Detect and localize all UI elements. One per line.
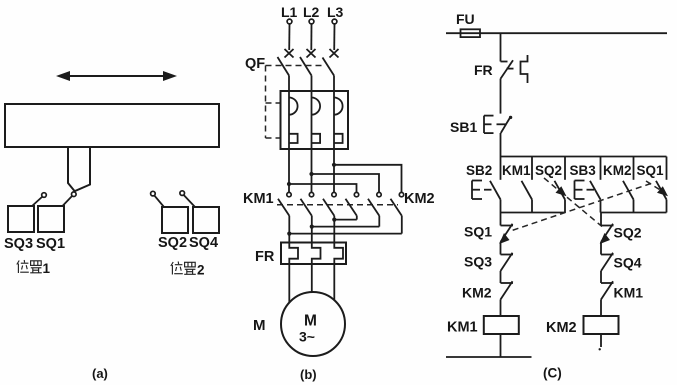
terminal L1: [287, 19, 292, 24]
limit switch SQ1 box: [38, 206, 64, 232]
start button SB2 (NO): [490, 157, 501, 213]
wire tie phase3 to KM2 pole1: [334, 219, 357, 221]
SQ1 NC contact: [501, 224, 514, 242]
supply rail: [446, 32, 667, 34]
KM2 aux contact (self hold): [623, 157, 634, 213]
wire to KM1 coil: [500, 300, 502, 317]
label weizhi-1 (position 1): [17, 260, 51, 276]
svg-text:SQ4: SQ4: [189, 235, 218, 251]
KM2 main contact pole2: [368, 192, 381, 215]
svg-text:SQ3: SQ3: [464, 254, 492, 270]
wire SB1 to feeder bus: [500, 133, 502, 157]
wire KM2 pole3 down: [401, 216, 403, 234]
KM1 NC interlock contact: [601, 281, 614, 299]
svg-text:SQ2: SQ2: [614, 225, 642, 241]
worktable: [5, 104, 219, 147]
wire bus2 to SQ1 NC: [500, 213, 502, 226]
KM2 coil: [584, 316, 619, 334]
KM2 NC interlock contact: [501, 281, 514, 299]
svg-text:SB1: SB1: [450, 119, 477, 135]
thermal relay FR block: [281, 243, 346, 265]
svg-text:(C): (C): [543, 366, 562, 381]
QF pole cross L2: [307, 49, 316, 58]
SQ2 NO contact: [555, 157, 566, 213]
SQ2 NC contact: [601, 224, 614, 242]
FR heater element 3: [334, 243, 343, 265]
linkage dashed SQ2: [544, 178, 602, 227]
trip element pole2: [312, 91, 321, 149]
svg-text:KM2: KM2: [462, 285, 492, 301]
motor M 3-phase: [281, 292, 345, 356]
svg-text:KM2: KM2: [603, 163, 632, 178]
QF linkage dashed: [266, 66, 325, 139]
wire KM2 pole2 down: [378, 216, 380, 227]
node tie phase2/KM2pole2: [310, 225, 314, 229]
FR heater element 2: [312, 243, 321, 265]
node phase2 branch: [309, 172, 313, 176]
SQ3 lever: [32, 197, 43, 207]
svg-text:L2: L2: [303, 4, 320, 20]
wire tie phase1 to KM2 pole3: [289, 233, 402, 235]
KM1 coil: [484, 316, 519, 334]
svg-text:SQ1: SQ1: [36, 236, 65, 252]
wire below KM2 coil: [600, 334, 602, 347]
wire L2 drop: [310, 24, 312, 50]
wire to KM2 coil: [600, 300, 602, 317]
wire branch phase2 to KM2 pole2: [312, 174, 380, 192]
wire branch phase1 to KM2 pole1: [289, 184, 357, 192]
feeder bus: [501, 156, 667, 158]
motion double arrow: [56, 71, 177, 81]
svg-text:SQ1: SQ1: [637, 163, 665, 178]
node phase3 branch: [332, 163, 336, 167]
arrow into SQ1 NC: [499, 233, 509, 244]
wire SQ2NC to SQ4: [600, 242, 602, 255]
wire SQ1NC to SQ3: [500, 242, 502, 255]
linkage stub into SQ1 NO: [646, 181, 660, 190]
svg-text:(a): (a): [92, 366, 108, 381]
wire FR to SB1: [500, 79, 502, 114]
motor feed wire U: [288, 264, 290, 303]
svg-text:M: M: [253, 317, 266, 334]
FR heater element 1: [289, 243, 298, 265]
wire pole3 to trip block: [333, 76, 335, 92]
SQ1 NO contact: [656, 157, 667, 213]
KM2 main contact pole3: [391, 192, 404, 215]
svg-text:3~: 3~: [299, 329, 315, 345]
KM1 aux contact (self hold): [522, 157, 533, 213]
wire phase1 down to KM1 contact: [288, 149, 290, 192]
limit switch SQ2 box: [162, 207, 188, 233]
QF trip unit block: [281, 91, 349, 149]
arrow into SQ2 NC: [600, 233, 610, 244]
svg-text:FR: FR: [255, 249, 275, 265]
svg-text:SQ1: SQ1: [464, 224, 492, 240]
svg-text:SQ3: SQ3: [4, 236, 33, 252]
SQ4 NC contact: [601, 253, 614, 271]
QF blade pole1: [278, 57, 290, 76]
KM1 main contact pole3: [323, 192, 336, 215]
KM2 main contact pole1: [346, 192, 359, 215]
svg-text:KM1: KM1: [502, 163, 531, 178]
svg-text:KM1: KM1: [243, 191, 274, 207]
wire KM1 pole3 down: [333, 216, 335, 243]
contact linkage dashed: [277, 204, 398, 206]
svg-text:SQ2: SQ2: [158, 235, 187, 251]
trip element pole1: [289, 91, 298, 149]
wire L1 drop: [288, 24, 290, 50]
SQ3 NC contact: [501, 253, 514, 271]
SB2 actuator E: [472, 181, 492, 200]
wire bus2 to SQ2 NC: [600, 213, 602, 226]
label weizhi-2 (position 2): [171, 262, 205, 278]
svg-text:KM1: KM1: [614, 285, 644, 301]
svg-text:2: 2: [197, 263, 205, 278]
linkage arrow into SQ1 NO: [657, 186, 668, 196]
QF blade pole3: [323, 58, 335, 76]
svg-text:SB2: SB2: [466, 163, 492, 178]
svg-text:QF: QF: [245, 56, 265, 72]
QF pole cross L3: [330, 49, 339, 58]
KM1 main contact pole1: [278, 192, 291, 215]
linkage arrow into SQ2 NO: [556, 186, 567, 196]
SQ1 lever: [62, 196, 72, 207]
wire coil to return rail: [500, 334, 502, 358]
wire L3 drop: [333, 24, 335, 50]
wire pole1 to trip block: [288, 76, 290, 92]
node phase1 branch: [287, 182, 291, 186]
SB3 actuator E: [575, 181, 595, 200]
svg-text:SQ2: SQ2: [535, 163, 562, 178]
linkage dashed SQ1: [509, 184, 651, 232]
svg-text:L3: L3: [327, 4, 344, 20]
svg-text:L1: L1: [281, 4, 298, 20]
wire main drop: [500, 33, 502, 61]
bus2 right group: [601, 212, 667, 214]
svg-text:KM2: KM2: [546, 320, 577, 336]
limit switch SQ3 box: [8, 206, 34, 232]
svg-text:FR: FR: [474, 62, 493, 78]
stop button SB1 (NC): [484, 116, 512, 134]
svg-text:SQ4: SQ4: [614, 255, 642, 271]
wire KM2 pole1 down: [356, 216, 358, 220]
terminal L2: [309, 19, 314, 24]
QF pole cross L1: [285, 49, 294, 58]
svg-text:KM1: KM1: [447, 320, 478, 336]
wire tie phase2 to KM2 pole2: [312, 226, 380, 228]
trip element pole3: [334, 91, 343, 149]
wire SQ4 to KM1 interlock: [600, 271, 602, 283]
wire KM1 pole2 down: [311, 216, 313, 243]
terminal L3: [332, 19, 337, 24]
svg-text:FU: FU: [456, 11, 475, 27]
FR trip hook: [521, 55, 528, 83]
wire phase2 down: [311, 149, 313, 192]
return rail: [446, 356, 532, 358]
bus2 left group: [501, 212, 566, 214]
wire phase3 down: [333, 149, 335, 192]
wire SQ3 to KM2 interlock: [500, 271, 502, 283]
wire branch phase3 to KM2 pole3: [334, 165, 402, 193]
limit switch SQ4 box: [193, 207, 219, 233]
cam dog: [68, 147, 90, 191]
SQ2 lever: [154, 195, 164, 207]
svg-text:M: M: [304, 313, 317, 330]
wire pole2 to trip block: [311, 76, 313, 92]
KM1 main contact pole2: [301, 192, 314, 215]
QF blade pole2: [300, 57, 312, 76]
svg-text:(b): (b): [300, 367, 317, 382]
svg-text:KM2: KM2: [404, 191, 435, 207]
motor feed wire V: [311, 264, 313, 292]
SQ4 lever: [184, 195, 196, 207]
wire KM1 pole1 down: [288, 216, 290, 243]
FR NC contact (control): [501, 60, 514, 78]
start button SB3 (NO): [590, 157, 601, 213]
node tie phase3/KM2pole1: [332, 218, 336, 222]
svg-text:SB3: SB3: [570, 163, 597, 178]
svg-text:1: 1: [43, 261, 51, 276]
motor feed wire W: [333, 264, 335, 300]
fuse FU: [461, 29, 481, 37]
roller on cam tip: [72, 192, 77, 197]
node tie phase1/KM2pole3: [287, 232, 291, 236]
